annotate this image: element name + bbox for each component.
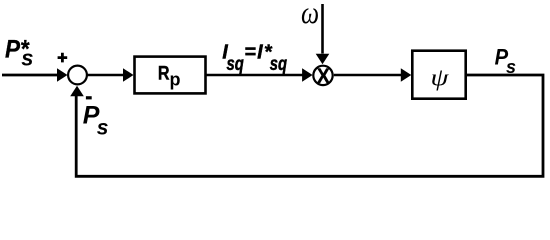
wire input to summing junction: [2, 68, 68, 82]
wire psi block output and feedback loop: [70, 75, 543, 176]
node Ps (feedback label): [83, 101, 109, 139]
svg-text:R: R: [158, 62, 170, 84]
wire omega to multiplier: [316, 4, 330, 64]
node Ps (output power label): [495, 46, 516, 77]
wire multiplier to psi block: [334, 68, 412, 82]
wire Rp block to multiplier: [207, 68, 313, 82]
svg-text:X: X: [317, 65, 330, 88]
multiplier X: [313, 65, 332, 88]
node Isq=I*sq (current command label): [222, 42, 287, 75]
svg-text:ω: ω: [301, 0, 319, 31]
plus sign at summing junction: [58, 53, 68, 63]
svg-text:sq: sq: [227, 53, 245, 74]
svg-text:p: p: [170, 70, 181, 90]
svg-text:=I*: =I*: [244, 42, 273, 64]
summing junction: [68, 66, 87, 85]
block Rp (power controller): [135, 57, 206, 94]
svg-text:sq: sq: [270, 53, 288, 74]
svg-text:ψ: ψ: [430, 64, 448, 91]
svg-text:s: s: [97, 116, 109, 139]
node P*s (reference power input label): [5, 36, 34, 71]
svg-text:s: s: [21, 46, 33, 71]
block psi (flux model): [412, 51, 465, 99]
wire summing junction to Rp block: [88, 68, 134, 82]
minus sign at summing junction: [86, 96, 92, 99]
